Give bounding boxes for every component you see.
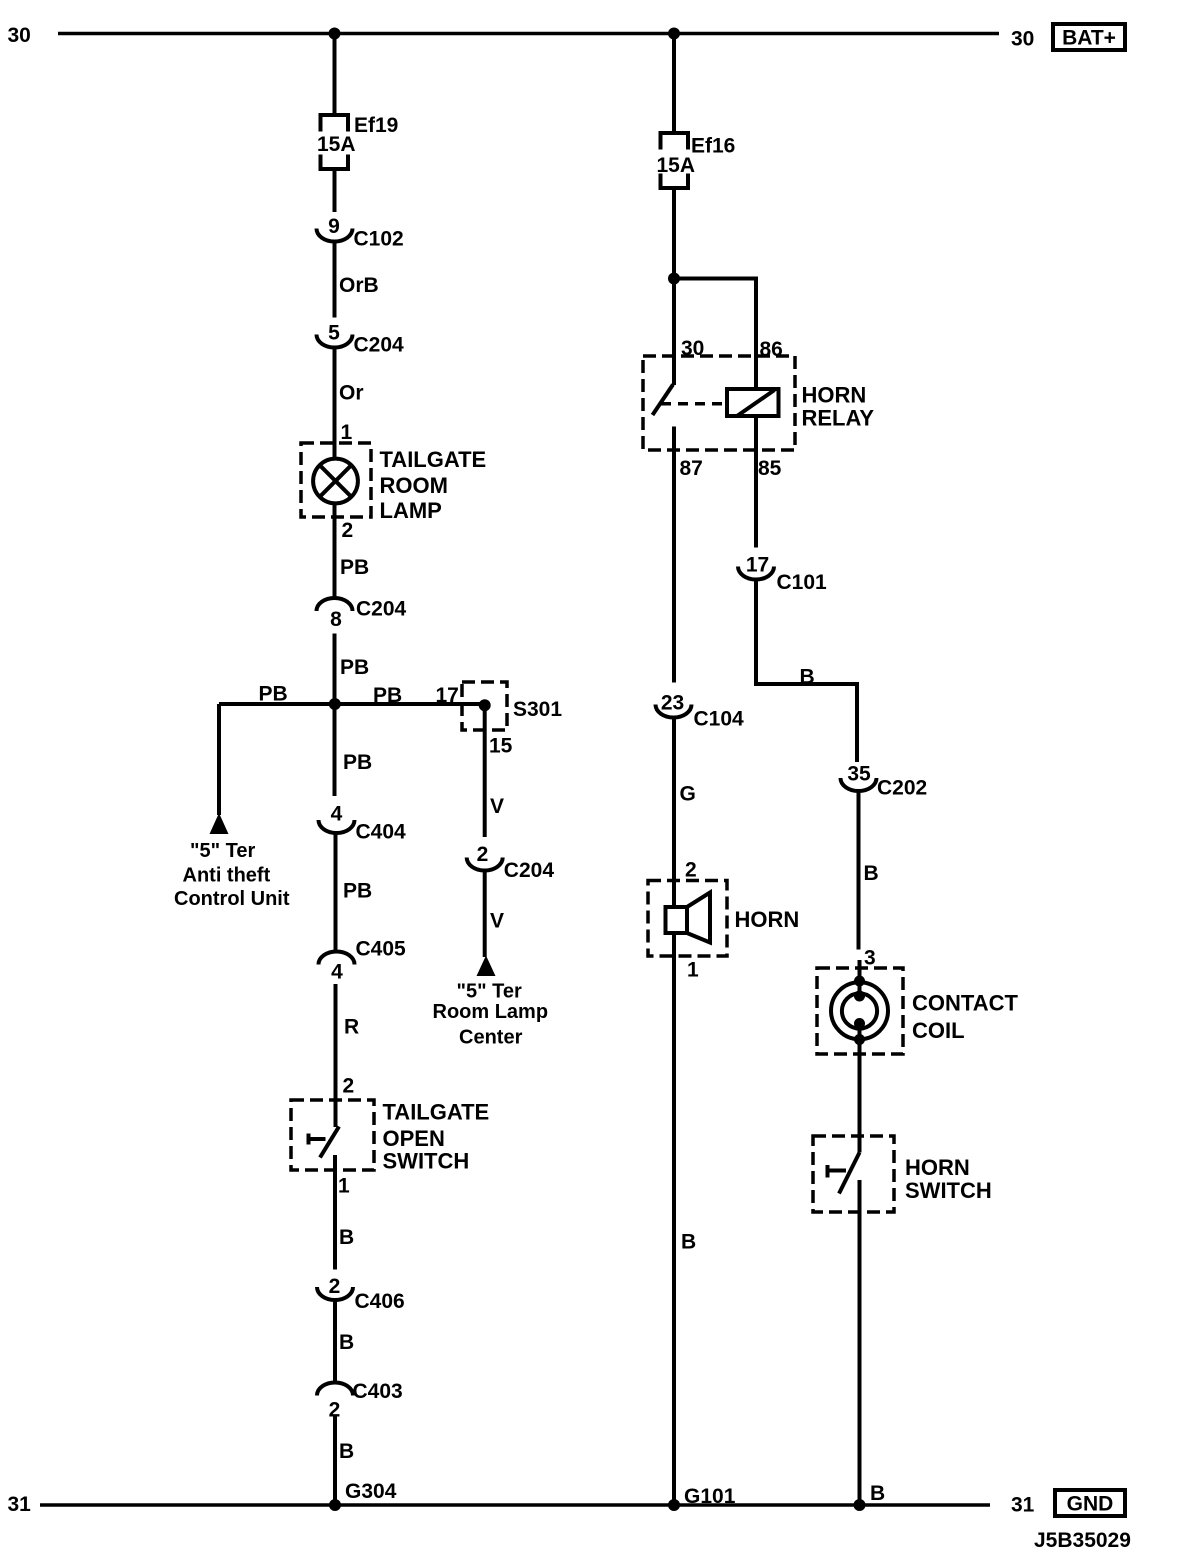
node G101 (668, 1499, 680, 1511)
horn switch symbol (828, 1153, 860, 1194)
contact coil dashed box (817, 968, 903, 1054)
wire V to room lamp center (483, 871, 487, 958)
svg-text:31: 31 (1011, 1494, 1035, 1517)
node bus30 / Ef16 junction (668, 28, 680, 40)
relay switch blade (653, 385, 674, 416)
tailgate open switch dashed box (291, 1100, 374, 1170)
wire B C202 to contact coil (857, 791, 861, 950)
svg-text:CONTACT: CONTACT (912, 991, 1018, 1016)
svg-text:R: R (344, 1016, 359, 1039)
connector C403 pin 2 (open down) (317, 1380, 403, 1422)
connector C204 pin 5 (317, 322, 405, 357)
svg-text:4: 4 (331, 961, 343, 984)
wire PB lamp to C204 (333, 503, 337, 598)
svg-text:PB: PB (343, 880, 372, 903)
svg-text:Ef16: Ef16 (691, 135, 735, 158)
svg-text:Or: Or (339, 382, 364, 405)
svg-text:SWITCH: SWITCH (905, 1178, 992, 1203)
svg-text:"5" Ter: "5" Ter (190, 840, 256, 862)
svg-text:B: B (339, 1331, 354, 1354)
wire B horn switch to bus 31 (858, 1180, 862, 1505)
svg-text:LAMP: LAMP (380, 498, 442, 523)
svg-text:V: V (490, 795, 504, 818)
svg-text:RELAY: RELAY (802, 406, 875, 431)
svg-text:HORN: HORN (735, 907, 800, 932)
wire bus30 to fuse Ef16 (672, 34, 676, 134)
connector C104 pin 23 (656, 692, 745, 731)
svg-text:S301: S301 (513, 698, 562, 721)
svg-text:17: 17 (436, 684, 459, 707)
svg-text:1: 1 (338, 1175, 350, 1198)
svg-text:2: 2 (342, 519, 354, 542)
svg-text:TAILGATE: TAILGATE (383, 1100, 490, 1125)
svg-text:C102: C102 (354, 228, 404, 251)
connector C404 pin 4 (319, 803, 407, 844)
connector C406 pin 2 (317, 1275, 405, 1313)
svg-text:C406: C406 (355, 1290, 405, 1313)
bus 30 top (58, 32, 999, 35)
wire B horn to ground (672, 933, 676, 1505)
svg-text:86: 86 (760, 338, 783, 361)
svg-text:PB: PB (340, 556, 369, 579)
wire contact coil to horn switch (858, 1024, 862, 1153)
destination triangle anti theft (210, 813, 229, 834)
svg-text:15A: 15A (317, 133, 356, 156)
tailgate room lamp dashed box (301, 443, 371, 517)
wire B jog right (756, 580, 857, 763)
svg-text:"5" Ter: "5" Ter (457, 981, 523, 1003)
svg-text:B: B (800, 666, 815, 689)
svg-text:Ef19: Ef19 (354, 114, 398, 137)
BAT+ terminal box (1053, 24, 1125, 50)
wire Or (333, 348, 337, 460)
svg-text:15: 15 (489, 735, 513, 758)
wire G to horn (672, 718, 676, 908)
contact coil symbol (831, 960, 888, 1045)
bus 31 bottom (40, 1503, 990, 1506)
svg-text:9: 9 (328, 215, 340, 238)
wire B C406 to C403 (333, 1300, 337, 1382)
svg-text:31: 31 (8, 1493, 32, 1516)
horn dashed box (648, 881, 727, 957)
svg-text:87: 87 (680, 457, 703, 480)
horn switch dashed box (813, 1136, 894, 1212)
horn speaker symbol (666, 893, 711, 943)
svg-text:PB: PB (259, 683, 288, 706)
svg-text:GND: GND (1067, 1493, 1114, 1516)
destination triangle room lamp center (477, 956, 496, 977)
svg-text:G304: G304 (345, 1480, 397, 1503)
svg-text:OPEN: OPEN (383, 1126, 445, 1151)
wire fuse to relay junction (672, 188, 676, 279)
svg-text:C204: C204 (504, 859, 555, 882)
svg-text:C104: C104 (694, 708, 745, 731)
svg-text:C204: C204 (356, 598, 407, 621)
svg-text:3: 3 (864, 947, 876, 970)
svg-text:B: B (339, 1440, 354, 1463)
svg-text:85: 85 (758, 457, 782, 480)
wire R (334, 984, 338, 1127)
svg-text:30: 30 (681, 337, 704, 360)
svg-text:G101: G101 (684, 1485, 736, 1508)
svg-text:30: 30 (1011, 28, 1034, 51)
wire fuse to C102 (333, 169, 337, 212)
svg-text:5: 5 (328, 322, 340, 345)
svg-text:C101: C101 (777, 571, 828, 594)
node: bus 30 / Ef19 junction (329, 28, 341, 40)
svg-text:23: 23 (661, 692, 684, 715)
relay coil diagonal (737, 390, 775, 416)
connector C204 pin 2 (467, 843, 555, 882)
wire PB C404 to C405 (334, 833, 338, 951)
node S301 (479, 699, 491, 711)
svg-text:C405: C405 (356, 938, 407, 961)
svg-text:2: 2 (343, 1075, 355, 1098)
wire OrB (333, 242, 337, 318)
svg-text:Center: Center (459, 1027, 523, 1049)
svg-text:8: 8 (330, 608, 342, 631)
connector C102 pin 9 (317, 215, 404, 251)
tailgate open switch symbol (309, 1127, 340, 1158)
svg-text:SWITCH: SWITCH (383, 1149, 470, 1174)
svg-text:COIL: COIL (912, 1018, 965, 1043)
relay actuating dashed link (661, 402, 727, 406)
connector C202 pin 35 (841, 763, 928, 800)
connector C405 pin 4 (open down) (319, 938, 407, 984)
svg-text:C204: C204 (354, 334, 405, 357)
wire PB junction to C404 (333, 704, 337, 796)
svg-text:Room Lamp: Room Lamp (433, 1001, 549, 1023)
connector C101 pin 17 (738, 554, 827, 595)
relay coil box (727, 389, 779, 416)
wire horizontal branch PB (219, 702, 485, 706)
svg-text:HORN: HORN (802, 383, 867, 408)
wire V from S301 (483, 705, 487, 837)
svg-text:35: 35 (847, 763, 871, 786)
svg-text:TAILGATE: TAILGATE (380, 447, 487, 472)
svg-text:HORN: HORN (905, 1155, 970, 1180)
svg-text:V: V (490, 910, 504, 933)
svg-text:Anti theft: Anti theft (183, 865, 271, 887)
GND terminal box (1055, 1490, 1125, 1516)
wire bus30 to fuse Ef19 (333, 34, 337, 116)
svg-text:B: B (864, 862, 879, 885)
splice S301 dashed box (462, 682, 507, 730)
svg-text:Control Unit: Control Unit (174, 888, 290, 910)
svg-text:1: 1 (687, 959, 699, 982)
wire relay 85 down to C101 (754, 416, 758, 548)
wire relay switch leg (86->30 contact feed) (672, 279, 676, 386)
svg-text:PB: PB (343, 751, 372, 774)
svg-text:17: 17 (746, 554, 769, 577)
node relay branch junction (668, 273, 680, 285)
svg-text:1: 1 (341, 421, 353, 444)
wire left branch down to anti theft (217, 704, 221, 815)
svg-text:B: B (870, 1482, 885, 1505)
node junction S302 (329, 698, 341, 710)
svg-text:2: 2 (477, 843, 489, 866)
svg-text:4: 4 (331, 803, 343, 826)
svg-text:OrB: OrB (339, 274, 379, 297)
svg-text:C403: C403 (353, 1380, 403, 1403)
svg-text:ROOM: ROOM (380, 473, 448, 498)
fuse Ef16 15A (657, 133, 736, 188)
horn relay dashed box (643, 356, 795, 450)
svg-text:PB: PB (340, 656, 369, 679)
svg-text:2: 2 (685, 859, 697, 882)
wire B to ground G304 (333, 1415, 337, 1506)
svg-text:J5B35029: J5B35029 (1034, 1529, 1131, 1552)
svg-text:2: 2 (329, 1275, 341, 1298)
svg-text:15A: 15A (657, 154, 696, 177)
node bus31 right (854, 1499, 866, 1511)
wire relay 87 down (672, 427, 676, 683)
wire B switch to C406 (333, 1155, 337, 1270)
svg-text:B: B (681, 1231, 696, 1254)
svg-text:G: G (680, 783, 696, 806)
svg-text:PB: PB (373, 684, 402, 707)
wire branch to relay coil leg (674, 279, 756, 390)
svg-text:C404: C404 (356, 821, 407, 844)
node G304 (329, 1499, 341, 1511)
wire PB to junction (333, 634, 337, 705)
fuse Ef19 15A (317, 114, 398, 169)
svg-text:B: B (339, 1226, 354, 1249)
connector C204 pin 8 (open down) (317, 598, 407, 632)
svg-text:30: 30 (8, 24, 31, 47)
svg-text:BAT+: BAT+ (1062, 27, 1116, 50)
lamp symbol (313, 459, 358, 504)
svg-text:C202: C202 (877, 777, 927, 800)
